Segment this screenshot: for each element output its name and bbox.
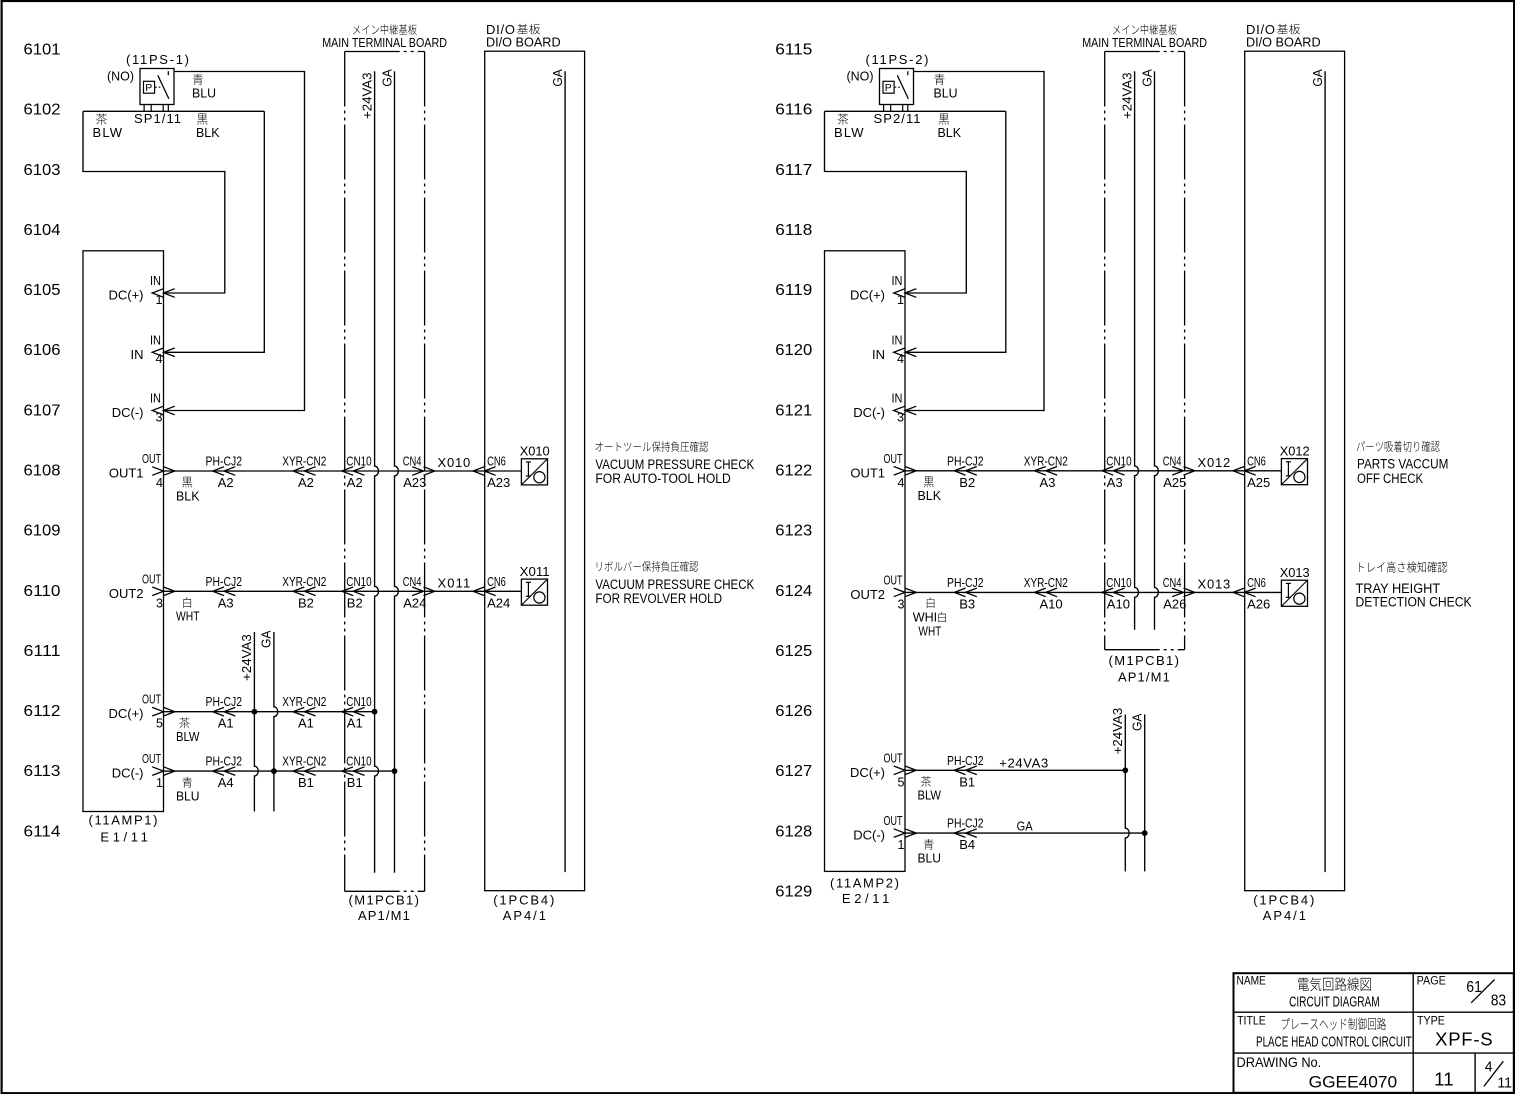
svg-text:A4: A4 xyxy=(218,775,234,790)
junction dot DC(-) to GA xyxy=(271,768,277,774)
svg-text:OUT: OUT xyxy=(884,452,903,466)
svg-text:AP4/1: AP4/1 xyxy=(503,908,546,923)
wire E2 OUT2 row xyxy=(905,591,1281,593)
sensor I/O point X010 xyxy=(520,444,550,485)
svg-text:X010: X010 xyxy=(520,444,550,459)
label 白 WHT wire color xyxy=(913,597,946,638)
svg-text:6116: 6116 xyxy=(775,102,812,119)
svg-text:6101: 6101 xyxy=(24,42,61,59)
svg-text:4: 4 xyxy=(1485,1059,1493,1076)
svg-text:CN10: CN10 xyxy=(346,574,371,589)
junction dot DC(-) to GA xyxy=(1142,830,1148,836)
svg-text:6128: 6128 xyxy=(775,823,812,840)
svg-text:VACUUM PRESSURE CHECK: VACUUM PRESSURE CHECK xyxy=(595,577,754,592)
svg-text:XYR-CN2: XYR-CN2 xyxy=(1024,453,1068,468)
svg-text:6103: 6103 xyxy=(24,162,61,179)
svg-text:+24VA3: +24VA3 xyxy=(1110,708,1125,755)
svg-text:4: 4 xyxy=(897,352,904,366)
connector PH-CJ2 pin A1 (DC+) xyxy=(206,694,243,731)
board M1PCB1 main terminal board outline xyxy=(1105,52,1185,650)
svg-text:A2: A2 xyxy=(218,475,234,490)
svg-text:PH-CJ2: PH-CJ2 xyxy=(947,753,984,768)
svg-text:+24VA3: +24VA3 xyxy=(239,634,254,681)
svg-text:1: 1 xyxy=(156,293,163,307)
svg-text:CN6: CN6 xyxy=(1247,575,1266,590)
svg-text:PLACE HEAD CONTROL CIRCUIT: PLACE HEAD CONTROL CIRCUIT xyxy=(1256,1033,1412,1050)
svg-text:(M1PCB1): (M1PCB1) xyxy=(1109,653,1180,668)
connector PH-CJ2 pin B1 (DC+) xyxy=(947,753,984,790)
wire E2 DC+ row xyxy=(905,769,1125,771)
svg-text:PH-CJ2: PH-CJ2 xyxy=(947,816,984,831)
svg-text:A10: A10 xyxy=(1040,596,1063,611)
net label GA on DC(-) wire xyxy=(1017,818,1033,833)
svg-text:A26: A26 xyxy=(1247,596,1270,611)
svg-text:B1: B1 xyxy=(959,774,975,789)
wire BLK: PS2 pin to E2 IN4 xyxy=(905,111,1006,352)
pin E2 OUT2 OUT 3 xyxy=(850,573,916,611)
svg-text:(1PCB4): (1PCB4) xyxy=(1253,892,1314,907)
label 茶 BLW wire color xyxy=(93,114,123,140)
bus GA on M1PCB1 xyxy=(379,69,398,873)
label 青 BLU wire color xyxy=(176,777,200,803)
wire BLW: PS2 pin to E2 DC(+) IN1 xyxy=(825,111,1006,293)
wire E2 OUT1 row xyxy=(905,470,1281,472)
svg-text:GA: GA xyxy=(259,630,274,648)
svg-text:DC(-): DC(-) xyxy=(853,405,885,420)
svg-text:MAIN TERMINAL BOARD: MAIN TERMINAL BOARD xyxy=(1082,35,1207,50)
svg-text:B1: B1 xyxy=(347,775,363,790)
svg-text:GA: GA xyxy=(1139,69,1154,87)
svg-text:1: 1 xyxy=(898,838,905,852)
svg-text:BLK: BLK xyxy=(938,125,962,140)
connector CN4 pin A25 (OUT1) xyxy=(1163,453,1195,490)
svg-text:A10: A10 xyxy=(1107,596,1130,611)
connector CN4 pin A26 (OUT2) xyxy=(1163,575,1195,612)
label 茶 BLW wire color xyxy=(918,776,942,802)
row reference numbers 6115-6129 xyxy=(775,42,812,901)
svg-text:AP4/1: AP4/1 xyxy=(1263,908,1306,923)
svg-text:OUT1: OUT1 xyxy=(109,466,144,481)
connector XYR-CN2 pin A1 (DC+) xyxy=(282,694,326,731)
svg-text:GA: GA xyxy=(550,69,565,87)
svg-text:AP1/M1: AP1/M1 xyxy=(1118,669,1170,684)
svg-text:X011: X011 xyxy=(438,575,471,590)
svg-text:PH-CJ2: PH-CJ2 xyxy=(206,454,243,469)
svg-text:A24: A24 xyxy=(403,595,426,610)
svg-text:A3: A3 xyxy=(1107,475,1123,490)
connector PH-CJ2 pin A2 (OUT1) xyxy=(206,454,243,491)
svg-text:OUT: OUT xyxy=(884,814,903,828)
svg-text:VACUUM PRESSURE CHECK: VACUUM PRESSURE CHECK xyxy=(595,457,754,472)
pressure switch PS2 (11PS-2) pressure sensor xyxy=(880,69,914,112)
connector CN6 pin A24 (OUT2) xyxy=(473,574,510,611)
net label +24VA3 on DC(+) wire xyxy=(999,756,1048,771)
svg-text:CN10: CN10 xyxy=(346,694,371,709)
svg-text:XYR-CN2: XYR-CN2 xyxy=(282,574,326,589)
svg-text:DRAWING No.: DRAWING No. xyxy=(1237,1054,1322,1070)
label 白 WHT wire color xyxy=(176,597,200,624)
svg-text:CN10: CN10 xyxy=(1106,453,1131,468)
label 茶 BLW wire color xyxy=(176,718,200,744)
svg-text:CN6: CN6 xyxy=(487,454,506,469)
pin E1 OUT1 OUT 4 xyxy=(109,452,175,490)
label 黒 BLK wire color xyxy=(918,477,942,504)
svg-text:FOR AUTO-TOOL HOLD: FOR AUTO-TOOL HOLD xyxy=(595,471,731,486)
connector CN10 pin A3 (OUT1) xyxy=(1102,453,1132,490)
board M1PCB1 main terminal board outline xyxy=(345,52,425,892)
connector CN6 pin A26 (OUT2) xyxy=(1233,575,1270,612)
svg-text:CN4: CN4 xyxy=(1163,575,1182,590)
svg-text:3: 3 xyxy=(898,597,905,611)
svg-text:GGEE4070: GGEE4070 xyxy=(1309,1072,1398,1091)
svg-text:TYPE: TYPE xyxy=(1417,1016,1445,1028)
svg-text:(11PS-2): (11PS-2) xyxy=(866,52,929,67)
svg-text:P: P xyxy=(145,82,152,94)
svg-text:BLU: BLU xyxy=(934,85,958,100)
pin E1 OUT2 OUT 3 xyxy=(109,572,175,610)
connector XYR-CN2 pin B2 (OUT2) xyxy=(282,574,326,611)
annotation vacuum pressure check revolver xyxy=(595,561,754,606)
label (11PS-2) xyxy=(847,52,929,126)
svg-text:OUT1: OUT1 xyxy=(850,465,885,480)
svg-text:SP2/11: SP2/11 xyxy=(874,111,921,126)
title block xyxy=(1234,973,1514,1093)
svg-text:PARTS VACCUM: PARTS VACCUM xyxy=(1357,456,1448,471)
svg-text:11: 11 xyxy=(1497,1074,1512,1091)
svg-text:OUT: OUT xyxy=(142,572,161,586)
svg-text:X010: X010 xyxy=(438,455,471,470)
wire BLW: PS1 pin to E1 DC(+) IN1 xyxy=(83,111,264,293)
node X011 net label xyxy=(438,575,471,590)
svg-text:BLK: BLK xyxy=(176,488,200,503)
svg-text:6120: 6120 xyxy=(775,342,812,359)
svg-text:BLW: BLW xyxy=(93,125,123,140)
title block PAGE 61/83 xyxy=(1417,976,1507,1010)
svg-text:6113: 6113 xyxy=(24,763,61,780)
svg-text:CN10: CN10 xyxy=(346,454,371,469)
svg-text:A2: A2 xyxy=(347,475,363,490)
svg-text:OUT: OUT xyxy=(884,751,903,765)
svg-text:OUT: OUT xyxy=(142,752,161,766)
svg-text:B3: B3 xyxy=(959,596,975,611)
svg-text:XYR-CN2: XYR-CN2 xyxy=(282,454,326,469)
svg-text:61: 61 xyxy=(1466,979,1482,996)
pin E2 IN IN 4 xyxy=(872,333,916,366)
svg-text:3: 3 xyxy=(897,410,904,424)
svg-text:6108: 6108 xyxy=(24,462,61,479)
svg-text:5: 5 xyxy=(156,717,163,731)
svg-text:1: 1 xyxy=(897,293,904,307)
svg-text:6115: 6115 xyxy=(775,42,812,59)
svg-text:IN: IN xyxy=(892,333,903,347)
svg-text:5: 5 xyxy=(898,775,905,789)
svg-text:BLW: BLW xyxy=(176,729,200,744)
pin E1 DC(+) IN 1 xyxy=(108,274,174,307)
svg-text:IN: IN xyxy=(872,347,885,362)
svg-text:6106: 6106 xyxy=(24,342,61,359)
svg-text:A3: A3 xyxy=(1040,475,1056,490)
junction dot OUT DC(-) to bus GA xyxy=(392,768,398,774)
connector CN4 pin A24 (OUT2) xyxy=(403,574,435,611)
svg-text:XYR-CN2: XYR-CN2 xyxy=(1024,575,1068,590)
svg-text:MAIN TERMINAL BOARD: MAIN TERMINAL BOARD xyxy=(322,35,447,50)
svg-text:A2: A2 xyxy=(298,475,314,490)
svg-text:AP1/M1: AP1/M1 xyxy=(358,908,410,923)
svg-text:TITLE: TITLE xyxy=(1237,1016,1266,1028)
svg-text:BLW: BLW xyxy=(834,125,864,140)
svg-text:(11PS-1): (11PS-1) xyxy=(126,52,189,67)
svg-text:(NO): (NO) xyxy=(107,69,134,84)
svg-text:B1: B1 xyxy=(298,775,314,790)
svg-text:E1/11: E1/11 xyxy=(100,829,147,844)
label (11PS-1) xyxy=(107,52,189,126)
svg-text:A25: A25 xyxy=(1163,475,1186,490)
svg-text:GA: GA xyxy=(379,69,394,87)
svg-text:PH-CJ2: PH-CJ2 xyxy=(947,453,984,468)
svg-text:BLU: BLU xyxy=(192,85,216,100)
node X012 net label xyxy=(1198,455,1231,470)
svg-text:PH-CJ2: PH-CJ2 xyxy=(947,575,984,590)
node X013 net label xyxy=(1198,576,1231,591)
pin E2 DC(-) IN 3 xyxy=(853,392,916,425)
label 茶 BLW wire color xyxy=(834,114,864,140)
svg-text:B2: B2 xyxy=(959,475,975,490)
svg-text:SP1/11: SP1/11 xyxy=(134,111,181,126)
svg-text:OUT: OUT xyxy=(142,452,161,466)
svg-text:WHT: WHT xyxy=(176,609,200,624)
svg-text:6118: 6118 xyxy=(775,222,812,239)
svg-text:PH-CJ2: PH-CJ2 xyxy=(206,574,243,589)
pin E2 DC(+) IN 1 xyxy=(850,274,916,307)
connector CN10 pin A1 (DC+) xyxy=(342,694,372,731)
svg-text:6111: 6111 xyxy=(24,643,61,660)
svg-text:GA: GA xyxy=(1130,713,1145,731)
title block TITLE: place head control circuit xyxy=(1237,1016,1412,1051)
svg-text:BLK: BLK xyxy=(918,488,942,503)
bus +24VA3 on M1PCB1 xyxy=(1119,71,1138,630)
connector XYR-CN2 pin A10 (OUT2) xyxy=(1024,575,1068,612)
svg-text:6105: 6105 xyxy=(24,282,61,299)
connector PH-CJ2 pin B4 (DC-) xyxy=(947,816,984,853)
bus GA on 1PCB4 xyxy=(550,69,565,872)
svg-text:X013: X013 xyxy=(1280,565,1310,580)
bus GA on 1PCB4 xyxy=(1310,69,1325,872)
svg-text:OUT2: OUT2 xyxy=(850,587,885,602)
svg-text:A23: A23 xyxy=(403,475,426,490)
svg-text:CN4: CN4 xyxy=(403,454,422,469)
svg-text:E2/11: E2/11 xyxy=(842,891,890,906)
svg-text:6119: 6119 xyxy=(775,282,812,299)
svg-text:OUT: OUT xyxy=(142,693,161,707)
svg-text:CN6: CN6 xyxy=(1247,453,1266,468)
svg-text:4: 4 xyxy=(898,476,905,490)
annotation vacuum pressure check auto-tool xyxy=(595,441,754,486)
wire E2 DC- row xyxy=(905,832,1145,834)
svg-text:OUT2: OUT2 xyxy=(109,586,144,601)
svg-text:DC(+): DC(+) xyxy=(850,288,885,303)
title block NAME: circuit diagram xyxy=(1237,976,1380,1011)
bus GA local vertical xyxy=(1130,713,1145,871)
svg-text:11: 11 xyxy=(1434,1069,1453,1089)
svg-text:B2: B2 xyxy=(347,595,363,610)
svg-text:6125: 6125 xyxy=(775,643,812,660)
svg-text:CN4: CN4 xyxy=(403,574,422,589)
svg-text:6121: 6121 xyxy=(775,402,812,419)
row reference numbers 6101-6114 xyxy=(24,42,61,841)
svg-text:3: 3 xyxy=(156,410,163,424)
label 青 BLU wire color xyxy=(192,74,216,100)
svg-text:WHI: WHI xyxy=(913,609,938,624)
svg-text:B2: B2 xyxy=(298,595,314,610)
junction dot OUT DC(+) to bus +24VA3 xyxy=(372,709,378,715)
svg-text:+24VA3: +24VA3 xyxy=(359,73,374,120)
connector PH-CJ2 pin B3 (OUT2) xyxy=(947,575,984,612)
svg-text:XYR-CN2: XYR-CN2 xyxy=(282,694,326,709)
junction dot DC(+) to +24VA3 xyxy=(1122,767,1128,773)
svg-text:(NO): (NO) xyxy=(847,69,874,84)
svg-text:GA: GA xyxy=(1310,69,1325,87)
label 黒 BLK wire color xyxy=(176,477,200,504)
node X010 net label xyxy=(438,455,471,470)
svg-text:IN: IN xyxy=(892,392,903,406)
connector XYR-CN2 pin A2 (OUT1) xyxy=(282,454,326,491)
svg-text:6123: 6123 xyxy=(775,523,812,540)
svg-text:DI/O BOARD: DI/O BOARD xyxy=(486,34,561,49)
connector CN10 pin B1 (DC-) xyxy=(342,754,372,791)
connector XYR-CN2 pin A3 (OUT1) xyxy=(1024,453,1068,490)
svg-text:X012: X012 xyxy=(1280,443,1310,458)
svg-text:X013: X013 xyxy=(1198,576,1231,591)
connector CN10 pin B2 (OUT2) xyxy=(342,574,372,611)
svg-text:OUT: OUT xyxy=(884,573,903,587)
title block TYPE XPF-S xyxy=(1417,1016,1493,1050)
pin E2 OUT1 OUT 4 xyxy=(850,452,916,490)
svg-text:6124: 6124 xyxy=(775,583,812,600)
svg-text:DC(+): DC(+) xyxy=(108,706,143,721)
svg-text:6112: 6112 xyxy=(24,703,61,720)
svg-text:BLK: BLK xyxy=(196,125,220,140)
wire BLU: PS1 contact to E1 DC(-) IN3 xyxy=(164,72,305,411)
svg-text:(11AMP2): (11AMP2) xyxy=(830,875,899,890)
svg-text:A1: A1 xyxy=(298,716,314,731)
svg-text:OFF CHECK: OFF CHECK xyxy=(1357,471,1423,486)
svg-text:A1: A1 xyxy=(218,716,234,731)
sensor I/O point X013 xyxy=(1280,565,1310,606)
label 青 BLU wire color xyxy=(918,839,942,865)
label 黒 BLK wire color xyxy=(196,113,220,139)
svg-text:B4: B4 xyxy=(959,837,975,852)
wire E1 DC- row xyxy=(164,770,395,772)
svg-text:X012: X012 xyxy=(1198,455,1231,470)
svg-text:IN: IN xyxy=(150,333,161,347)
svg-text:WHT: WHT xyxy=(919,623,942,638)
svg-text:A1: A1 xyxy=(347,716,363,731)
svg-text:6126: 6126 xyxy=(775,703,812,720)
svg-text:DC(+): DC(+) xyxy=(108,288,143,303)
svg-text:83: 83 xyxy=(1491,993,1507,1010)
bus +24VA3 local vertical xyxy=(1110,708,1129,872)
wire BLK: PS1 pin to E1 IN4 xyxy=(164,111,265,352)
svg-text:CN4: CN4 xyxy=(1163,453,1182,468)
svg-text:1: 1 xyxy=(156,776,163,790)
svg-text:6109: 6109 xyxy=(24,523,61,540)
svg-text:XPF-S: XPF-S xyxy=(1435,1029,1493,1050)
svg-text:6102: 6102 xyxy=(24,102,61,119)
svg-text:DI/O BOARD: DI/O BOARD xyxy=(1246,34,1321,49)
board 1PCB4 DI/O board outline xyxy=(1245,51,1345,891)
svg-text:CIRCUIT DIAGRAM: CIRCUIT DIAGRAM xyxy=(1289,995,1380,1011)
svg-text:+24VA3: +24VA3 xyxy=(1119,73,1134,120)
svg-text:PH-CJ2: PH-CJ2 xyxy=(206,694,243,709)
svg-text:IN: IN xyxy=(150,274,161,288)
svg-text:3: 3 xyxy=(156,596,163,610)
bus +24VA3 local vertical xyxy=(239,632,258,812)
connector XYR-CN2 pin B1 (DC-) xyxy=(282,754,326,791)
svg-text:6104: 6104 xyxy=(24,222,61,239)
board 1PCB4 DI/O board outline xyxy=(485,51,585,891)
pin E1 IN IN 4 xyxy=(131,333,175,366)
svg-text:6127: 6127 xyxy=(775,763,812,780)
svg-text:BLU: BLU xyxy=(176,788,200,803)
pin E1 DC(-) OUT 1 xyxy=(112,752,175,790)
sensor I/O point X012 xyxy=(1280,443,1310,484)
pin E1 DC(-) IN 3 xyxy=(112,392,175,425)
annotation parts vacuum off check xyxy=(1357,441,1449,486)
svg-text:IN: IN xyxy=(150,392,161,406)
bus +24VA3 on M1PCB1 xyxy=(359,71,378,873)
pin E1 DC(+) OUT 5 xyxy=(108,693,174,731)
wire E1 OUT2 row xyxy=(164,590,522,592)
svg-text:DC(+): DC(+) xyxy=(850,765,885,780)
svg-text:(11AMP1): (11AMP1) xyxy=(89,813,158,828)
svg-text:A26: A26 xyxy=(1163,596,1186,611)
connector CN6 pin A23 (OUT1) xyxy=(473,454,510,491)
svg-text:DC(-): DC(-) xyxy=(112,766,144,781)
connector CN6 pin A25 (OUT1) xyxy=(1233,453,1270,490)
annotation tray height detection check xyxy=(1356,561,1472,609)
sensor I/O point X011 xyxy=(520,564,550,605)
svg-text:FOR REVOLVER HOLD: FOR REVOLVER HOLD xyxy=(595,591,722,606)
svg-text:A25: A25 xyxy=(1247,475,1270,490)
svg-text:A3: A3 xyxy=(218,595,234,610)
svg-text:(1PCB4): (1PCB4) xyxy=(493,892,554,907)
junction dot DC(+) to +24VA3 xyxy=(252,709,258,715)
svg-text:CN10: CN10 xyxy=(1106,575,1131,590)
svg-text:DC(-): DC(-) xyxy=(112,405,144,420)
svg-text:P: P xyxy=(885,82,892,94)
svg-text:BLW: BLW xyxy=(918,788,942,803)
svg-text:CN10: CN10 xyxy=(346,754,371,769)
label DI/O board xyxy=(486,22,561,923)
connector CN10 pin A2 (OUT1) xyxy=(342,454,372,491)
bus GA on M1PCB1 xyxy=(1139,69,1158,630)
svg-text:PAGE: PAGE xyxy=(1417,976,1447,988)
label 青 BLU wire color xyxy=(934,74,958,100)
svg-text:6114: 6114 xyxy=(24,823,61,840)
amplifier E1 (11AMP1) vacuum amplifier unit xyxy=(83,251,164,845)
svg-text:IN: IN xyxy=(131,347,144,362)
connector CN10 pin A10 (OUT2) xyxy=(1102,575,1132,612)
svg-text:(M1PCB1): (M1PCB1) xyxy=(349,892,420,907)
connector PH-CJ2 pin A3 (OUT2) xyxy=(206,574,243,611)
svg-text:+24VA3: +24VA3 xyxy=(999,756,1048,771)
svg-text:GA: GA xyxy=(1017,818,1033,833)
connector PH-CJ2 pin B2 (OUT1) xyxy=(947,453,984,490)
svg-text:DC(-): DC(-) xyxy=(853,828,885,843)
label DI/O board xyxy=(1246,22,1321,923)
svg-text:6129: 6129 xyxy=(775,883,812,900)
label main terminal board xyxy=(1082,24,1207,684)
